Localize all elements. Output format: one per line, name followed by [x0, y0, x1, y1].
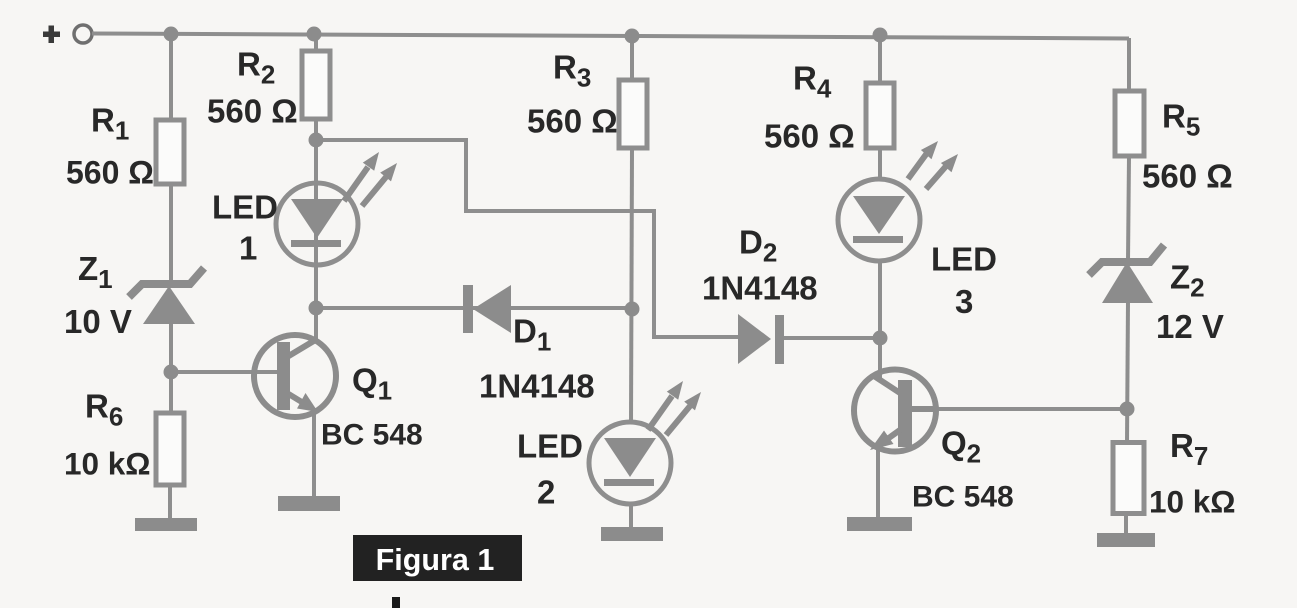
svg-text:LED: LED: [517, 428, 583, 465]
transistor Q1 BC548: [254, 335, 423, 452]
wire LED2 to ground: [629, 502, 633, 530]
resistor R4: [764, 60, 894, 155]
svg-text:560 Ω: 560 Ω: [1142, 158, 1233, 195]
resistor R3: [527, 49, 647, 149]
wire Q2 emitter to ground: [876, 448, 880, 519]
wire D2 cathode to node D: [782, 336, 880, 340]
svg-text:R3: R3: [553, 49, 591, 93]
resistor R6: [64, 388, 184, 486]
svg-text:D2: D2: [739, 224, 777, 268]
wire R5 to Z2: [1128, 156, 1129, 261]
ground below Q2: [847, 517, 912, 531]
diode D1 1N4148: [463, 285, 595, 405]
wire R2 stub: [314, 34, 318, 51]
node rail R4: [873, 28, 888, 43]
wire node B through D1 to node C: [316, 306, 632, 310]
resistor R2: [207, 46, 330, 130]
stray mark bottom: [392, 597, 400, 608]
svg-text:BC 548: BC 548: [321, 419, 423, 452]
wire R2 to LED1 to node B: [314, 119, 318, 341]
svg-text:10 kΩ: 10 kΩ: [1149, 484, 1236, 520]
wire R3 stub: [630, 36, 634, 80]
svg-text:1: 1: [239, 230, 257, 267]
node rail R3: [625, 29, 640, 44]
wire Z1 to node A: [169, 322, 173, 416]
wire right branch down to R5: [1127, 38, 1131, 91]
wire R1 branch: [169, 34, 173, 120]
LED2: [517, 381, 701, 511]
resistor R7: [1113, 427, 1236, 520]
wire Q1 emitter to ground: [312, 408, 316, 499]
node D D2 LED3 Q2: [873, 331, 888, 346]
transistor Q2 BC548: [854, 370, 1014, 514]
ground below R6: [135, 518, 197, 531]
diode D2 1N4148: [702, 224, 818, 365]
svg-text:10 kΩ: 10 kΩ: [64, 446, 151, 482]
wire R1 to Z1: [169, 183, 173, 284]
svg-text:R6: R6: [85, 388, 123, 432]
wire R6 to ground: [168, 481, 172, 522]
svg-text:BC 548: BC 548: [912, 481, 1014, 514]
wire R4 to LED3: [878, 148, 882, 181]
svg-text:R4: R4: [793, 60, 832, 104]
svg-text:1N4148: 1N4148: [702, 270, 818, 307]
node E Q2 base R7: [1120, 402, 1135, 417]
wire R3 to node C to LED2: [631, 148, 632, 424]
zener Z1: [64, 250, 204, 340]
svg-text:R2: R2: [237, 46, 275, 90]
wire R7 to ground: [1124, 513, 1128, 536]
wire R4 stub: [878, 35, 882, 83]
svg-text:Figura 1: Figura 1: [376, 543, 495, 577]
node B1 under R2: [309, 133, 324, 148]
svg-text:LED: LED: [931, 241, 997, 278]
node rail R2: [307, 27, 322, 42]
svg-text:Z2: Z2: [1170, 259, 1205, 303]
node C D1 R3: [625, 302, 640, 317]
wire Q2 base to R7 node: [912, 407, 1125, 411]
svg-text:1N4148: 1N4148: [479, 368, 595, 405]
wire top rail: [92, 34, 1129, 39]
resistor R1: [66, 102, 184, 191]
svg-text:10 V: 10 V: [64, 303, 132, 340]
LED1: [212, 152, 397, 267]
ground below Q1: [278, 496, 340, 511]
svg-text:560 Ω: 560 Ω: [764, 118, 855, 155]
svg-text:Q1: Q1: [352, 362, 392, 406]
Figura 1 label: [353, 535, 522, 581]
svg-text:560 Ω: 560 Ω: [527, 103, 618, 140]
power terminal +: [43, 25, 92, 43]
ground below LED2: [601, 527, 663, 541]
svg-text:R7: R7: [1170, 427, 1208, 471]
svg-text:560 Ω: 560 Ω: [66, 155, 154, 191]
svg-text:12 V: 12 V: [1156, 308, 1224, 345]
svg-text:R5: R5: [1162, 98, 1200, 142]
zener Z2: [1089, 245, 1224, 345]
svg-text:3: 3: [955, 283, 973, 320]
wire Z2 to node E: [1127, 301, 1128, 443]
wire node A to Q1 base: [171, 370, 280, 374]
LED3: [838, 141, 997, 320]
svg-text:D1: D1: [513, 313, 551, 357]
svg-text:560 Ω: 560 Ω: [207, 93, 298, 130]
svg-text:Z1: Z1: [78, 250, 113, 294]
wire LED3 to node D to Q2 collector: [878, 259, 882, 380]
svg-text:R1: R1: [91, 102, 129, 146]
svg-text:Q2: Q2: [941, 425, 981, 469]
svg-text:2: 2: [537, 474, 555, 511]
svg-text:LED: LED: [212, 189, 278, 226]
ground below R7: [1097, 533, 1155, 547]
node rail R1: [164, 27, 179, 42]
node A Z1 R6: [164, 365, 179, 380]
node B LED1 anode D1: [309, 301, 324, 316]
resistor R5: [1115, 91, 1233, 195]
wire node under R2 across to D2: [316, 140, 741, 337]
